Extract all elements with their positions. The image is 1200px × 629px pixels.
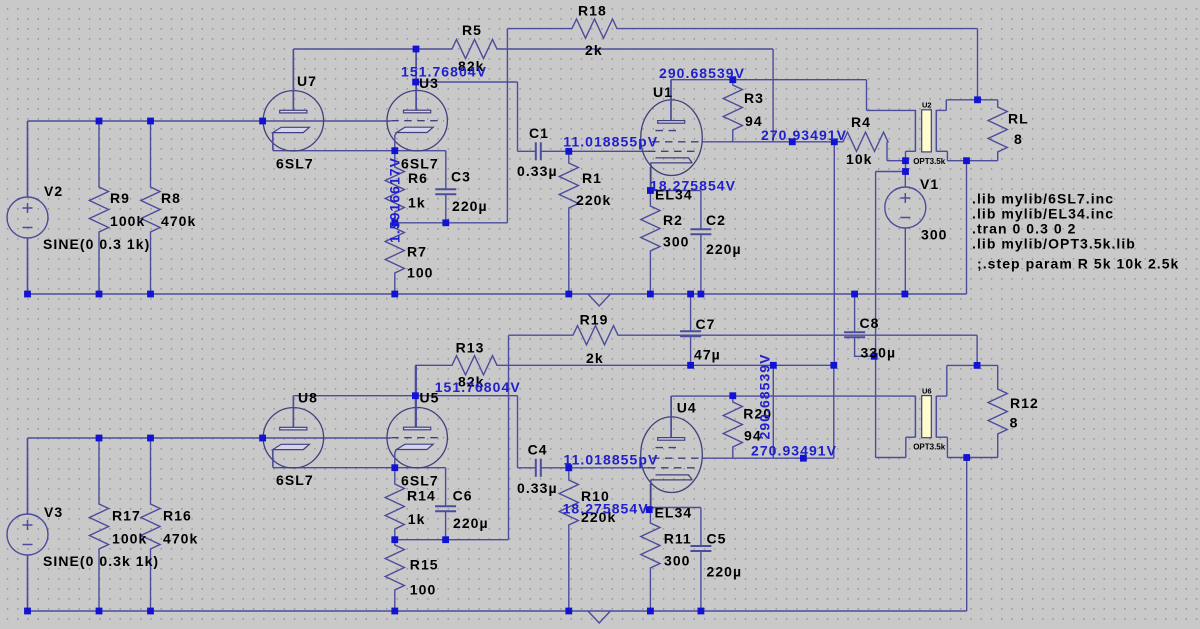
svg-text:100: 100 — [407, 265, 434, 281]
wire U8-U5 plate link — [293, 395, 415, 397]
label R10 — [581, 488, 610, 504]
triode U7 — [263, 49, 323, 151]
label U2 designator — [922, 101, 932, 110]
svg-text:R6: R6 — [408, 170, 428, 186]
label U3 — [419, 75, 439, 91]
capacitor C2 — [690, 191, 711, 295]
label C5 value — [707, 564, 743, 580]
label R7 value — [407, 265, 434, 281]
wire ground rail top — [28, 293, 967, 295]
label U2 value OPT3.5k — [913, 157, 946, 166]
wire feedback left drop lower — [508, 335, 510, 540]
label node voltage — [757, 353, 773, 439]
label C2 value — [706, 241, 742, 257]
svg-text:OPT3.5k: OPT3.5k — [913, 443, 946, 452]
wire primary bottom drop lower — [905, 437, 907, 457]
label C7 — [696, 316, 716, 332]
resistor R11 — [641, 508, 660, 612]
svg-text:270.93491V: 270.93491V — [751, 443, 837, 459]
wire V3 bottom lead — [27, 555, 29, 611]
wire secondary bottom lower — [947, 457, 997, 459]
svg-text:220µ: 220µ — [453, 515, 489, 531]
label R6 value — [408, 195, 426, 211]
triode U8 — [263, 396, 323, 468]
svg-text:R1: R1 — [582, 170, 602, 186]
label V3 — [44, 504, 63, 520]
svg-text:R12: R12 — [1010, 395, 1039, 411]
wire U8 grid line — [263, 437, 391, 439]
label R14 — [407, 488, 436, 504]
svg-text:100k: 100k — [112, 531, 147, 547]
label C3 value — [452, 198, 488, 214]
label U7 value — [276, 156, 314, 172]
svg-text:SINE(0 0.3 1k): SINE(0 0.3 1k) — [43, 236, 150, 252]
resistor R15 — [385, 540, 404, 611]
resistor R14 — [385, 468, 404, 540]
wire U8 plate lead — [292, 396, 294, 427]
svg-text:R13: R13 — [456, 340, 485, 356]
label R19 value — [586, 350, 604, 366]
wire plate to C4 branch — [415, 395, 517, 397]
svg-text:220µ: 220µ — [452, 198, 488, 214]
wire U4 grid feed — [569, 467, 650, 469]
label R17 value — [112, 531, 147, 547]
label spice directive — [972, 221, 1076, 237]
label R16 value — [163, 531, 198, 547]
wire U1 plate to OPT — [671, 79, 867, 81]
wire B+ drop to lower 270V node — [772, 365, 774, 458]
wire B+ drop to 270V node — [772, 49, 774, 142]
label spice directive — [972, 191, 1114, 207]
svg-text:100: 100 — [410, 582, 437, 598]
resistor R10 — [559, 468, 578, 611]
wire plate to C1 branch — [416, 81, 518, 83]
wire B+ vertical interchannel — [833, 142, 835, 365]
svg-text:U4: U4 — [677, 400, 697, 416]
resistor R20 — [723, 396, 742, 459]
resistor R13 — [415, 356, 833, 375]
label R15 value — [410, 582, 437, 598]
svg-text:U8: U8 — [298, 390, 318, 406]
svg-text:OPT3.5k: OPT3.5k — [913, 157, 946, 166]
wire U4 plate lead — [670, 396, 672, 437]
wire cathode bottom node lower — [395, 539, 509, 541]
resistor R6 — [385, 151, 404, 223]
svg-text:R14: R14 — [407, 488, 436, 504]
wire C4 branch down — [517, 396, 519, 468]
triode U5 — [387, 365, 447, 468]
label node voltage — [761, 127, 847, 143]
capacitor C6 — [435, 468, 456, 540]
wire primary bottom to V1 — [905, 151, 907, 171]
svg-text:U1: U1 — [653, 84, 673, 100]
wire secondary top riser lower — [946, 365, 948, 396]
wire input bottom — [28, 437, 263, 439]
label spice comment — [977, 256, 1179, 272]
transformer U2 — [915, 110, 936, 152]
wire secondary top lower — [947, 364, 998, 366]
svg-text:300: 300 — [921, 227, 948, 243]
wire secondary top riser — [945, 100, 947, 111]
capacitor C7 — [680, 294, 701, 365]
wire R4 right drop — [886, 142, 888, 161]
label spice directive — [972, 206, 1114, 222]
wire secondary bottom drop — [946, 151, 948, 160]
svg-text:SINE(0 0.3k 1k): SINE(0 0.3k 1k) — [43, 553, 159, 569]
label R12 value — [1010, 415, 1019, 431]
wire V2 bottom lead — [27, 238, 29, 294]
junctions top channel — [24, 46, 981, 298]
svg-text:18.275854V: 18.275854V — [563, 501, 649, 517]
svg-text:EL34: EL34 — [655, 505, 693, 521]
voltage source V1 — [885, 172, 926, 295]
label U1 — [653, 84, 673, 100]
label R9 — [110, 190, 130, 206]
wire V3 top lead — [27, 438, 29, 514]
label C2 — [706, 212, 726, 228]
svg-text:470k: 470k — [161, 213, 196, 229]
label C1 — [529, 125, 549, 141]
voltage source V2 — [7, 121, 48, 294]
svg-text:220µ: 220µ — [706, 241, 742, 257]
svg-text:U7: U7 — [297, 73, 317, 89]
svg-text:R19: R19 — [580, 312, 609, 328]
label C7 value — [694, 347, 721, 363]
capacitor C4 — [518, 459, 569, 477]
svg-text:.tran 0 0.3 0 2: .tran 0 0.3 0 2 — [972, 221, 1076, 237]
svg-text:18.275854V: 18.275854V — [650, 178, 736, 194]
svg-text:R3: R3 — [744, 90, 764, 106]
label R7 — [407, 244, 427, 260]
label R16 — [163, 508, 192, 524]
label R3 — [744, 90, 764, 106]
svg-text:R8: R8 — [161, 190, 181, 206]
label R8 — [161, 190, 181, 206]
svg-text:C2: C2 — [706, 212, 726, 228]
wire secondary bottom stub lower — [936, 436, 947, 438]
voltage source V3 — [7, 438, 48, 611]
wire 270V node horizontal — [702, 141, 843, 143]
svg-text:11.018855pV: 11.018855pV — [563, 134, 658, 150]
wire U8 cathode lead — [272, 450, 274, 468]
label R4 value — [846, 151, 873, 167]
label C6 — [453, 488, 473, 504]
svg-text:;.step param R 5k 10k 2.5k: ;.step param R 5k 10k 2.5k — [977, 256, 1179, 272]
wire secondary bottom to rail lower — [966, 458, 968, 612]
resistor RL — [988, 100, 1007, 161]
wire V1 plus stub — [876, 171, 906, 173]
capacitor C1 — [518, 142, 569, 160]
svg-text:2k: 2k — [586, 350, 604, 366]
svg-text:6SL7: 6SL7 — [401, 473, 439, 489]
label R13 — [456, 340, 485, 356]
svg-text:C7: C7 — [696, 316, 716, 332]
svg-text:C3: C3 — [451, 169, 471, 185]
label U5 — [420, 390, 440, 406]
label R4 — [851, 114, 871, 130]
wire U7 cathode lead — [272, 133, 274, 151]
wire cathode to C5 — [650, 507, 701, 509]
label C1 value — [517, 163, 558, 179]
label node voltage — [401, 64, 487, 80]
label node voltage — [659, 65, 745, 81]
label R3 value — [745, 113, 763, 129]
label V1 value — [921, 227, 948, 243]
svg-text:V2: V2 — [44, 183, 63, 199]
wire secondary bottom to rail — [966, 161, 968, 294]
ground — [588, 294, 610, 306]
wire C1 branch down — [517, 82, 519, 151]
wire U4 cathode lead — [649, 484, 651, 508]
ground — [588, 611, 610, 623]
wire input top — [28, 120, 263, 122]
label spice directive — [972, 236, 1136, 252]
wire U3 plate lead — [415, 49, 417, 110]
svg-text:330µ: 330µ — [861, 345, 897, 361]
capacitor C5 — [690, 508, 711, 612]
svg-text:300: 300 — [664, 553, 691, 569]
svg-text:V1: V1 — [920, 176, 939, 192]
wire U7-U3 plate link — [293, 48, 416, 50]
wire cathode to C2 — [650, 190, 701, 192]
wire cathode node bottom ch — [273, 467, 446, 469]
wire ground rail bottom — [28, 610, 967, 612]
capacitor C3 — [435, 151, 456, 223]
label R11 value — [664, 553, 691, 569]
label V3 value — [43, 553, 159, 569]
svg-text:R5: R5 — [462, 22, 482, 38]
svg-text:.lib mylib/EL34.inc: .lib mylib/EL34.inc — [972, 206, 1114, 222]
svg-text:6SL7: 6SL7 — [276, 472, 314, 488]
label U4 — [677, 400, 697, 416]
svg-text:0.33µ: 0.33µ — [517, 163, 558, 179]
wire secondary bottom — [947, 160, 997, 162]
wire feedback right drop — [977, 29, 979, 100]
wire V2 top lead — [27, 121, 29, 197]
wire OPT primary top — [867, 109, 916, 111]
wire cathode bottom node — [395, 222, 508, 224]
svg-text:0.33µ: 0.33µ — [517, 480, 558, 496]
label R9 value — [110, 213, 145, 229]
svg-text:290.68539V: 290.68539V — [757, 353, 773, 439]
label U5 value — [401, 473, 439, 489]
label R17 — [112, 508, 141, 524]
svg-text:C5: C5 — [707, 531, 727, 547]
label node voltage — [564, 452, 659, 468]
svg-text:RL: RL — [1008, 111, 1029, 127]
wire secondary bottom drop lower — [946, 437, 948, 457]
wire primary bottom stub — [906, 150, 916, 152]
label node voltage — [435, 379, 521, 395]
label R2 — [663, 212, 683, 228]
svg-text:6SL7: 6SL7 — [276, 156, 314, 172]
svg-text:U6: U6 — [922, 387, 932, 396]
label R13 value — [458, 374, 485, 390]
svg-text:47µ: 47µ — [694, 347, 721, 363]
resistor R2 — [641, 191, 660, 295]
svg-text:11.018855pV: 11.018855pV — [564, 452, 659, 468]
wire R4 to V1 node — [887, 160, 906, 162]
svg-text:.lib mylib/OPT3.5k.lib: .lib mylib/OPT3.5k.lib — [972, 236, 1136, 252]
label R20 — [743, 406, 772, 422]
label node voltage — [650, 178, 736, 194]
triode U3 — [387, 49, 447, 151]
label R2 value — [663, 234, 690, 250]
svg-text:1.5916617V: 1.5916617V — [387, 157, 403, 243]
wire 300V vertical — [875, 172, 877, 458]
resistor R3 — [723, 80, 742, 142]
wire primary bottom to 300V — [876, 457, 906, 459]
pentode U1 — [641, 80, 703, 191]
label R8 value — [161, 213, 196, 229]
svg-text:2k: 2k — [585, 42, 603, 58]
label RL value — [1014, 131, 1023, 147]
svg-text:1k: 1k — [408, 511, 426, 527]
wire U4 control grid dashes — [648, 467, 695, 469]
label node voltage — [751, 443, 837, 459]
label C4 value — [517, 480, 558, 496]
svg-text:470k: 470k — [163, 531, 198, 547]
svg-text:R15: R15 — [410, 557, 439, 573]
label U6 designator — [922, 387, 932, 396]
wire OPT primary top drop — [866, 80, 868, 111]
svg-text:R17: R17 — [112, 508, 141, 524]
label R6 — [408, 170, 428, 186]
label RL — [1008, 111, 1029, 127]
wire secondary bottom stub — [936, 150, 947, 152]
resistor R12 — [988, 365, 1007, 457]
label U8 — [298, 390, 318, 406]
label C6 value — [453, 515, 489, 531]
svg-text:R18: R18 — [578, 3, 607, 19]
label U3 value — [401, 156, 439, 172]
svg-text:151.76804V: 151.76804V — [401, 64, 487, 80]
label R19 — [580, 312, 609, 328]
label V2 — [44, 183, 63, 199]
wire secondary top — [946, 99, 997, 101]
svg-text:1k: 1k — [408, 195, 426, 211]
svg-text:300: 300 — [663, 234, 690, 250]
wire U7 grid line — [263, 120, 391, 122]
resistor R9 — [89, 121, 108, 294]
pentode U4 — [641, 396, 703, 507]
label U1 value — [655, 187, 693, 203]
label C8 — [860, 315, 880, 331]
resistor R5 — [416, 39, 773, 58]
label U4 value — [655, 505, 693, 521]
svg-text:C4: C4 — [528, 442, 548, 458]
wire U5 plate lead — [414, 365, 416, 427]
resistor R19 — [509, 326, 978, 345]
svg-text:R4: R4 — [851, 114, 871, 130]
resistor R7 — [385, 223, 404, 294]
label V2 value — [43, 236, 150, 252]
label C5 — [707, 531, 727, 547]
svg-text:R9: R9 — [110, 190, 130, 206]
svg-text:270.93491V: 270.93491V — [761, 127, 847, 143]
svg-text:151.76804V: 151.76804V — [435, 379, 521, 395]
svg-text:R11: R11 — [664, 531, 692, 547]
svg-text:290.68539V: 290.68539V — [659, 65, 745, 81]
wire feedback left drop — [506, 29, 508, 223]
wire U1 screen dashes — [652, 141, 702, 143]
resistor R4 — [834, 132, 888, 151]
label U6 value OPT3.5k — [913, 443, 946, 452]
capacitor C8 — [844, 294, 874, 356]
svg-text:10k: 10k — [846, 151, 873, 167]
label C4 — [528, 442, 548, 458]
svg-text:R2: R2 — [663, 212, 683, 228]
svg-text:R7: R7 — [407, 244, 427, 260]
wire feedback right drop lower — [976, 335, 978, 365]
svg-text:R16: R16 — [163, 508, 192, 524]
wire U7 plate lead up — [292, 49, 294, 110]
label R18 value — [585, 42, 603, 58]
wire U4 screen dashes — [652, 457, 702, 459]
label U8 value — [276, 472, 314, 488]
svg-text:U2: U2 — [922, 101, 932, 110]
label R10 value — [581, 509, 616, 525]
svg-text:8: 8 — [1014, 131, 1023, 147]
resistor R17 — [89, 438, 108, 611]
label R12 — [1010, 395, 1039, 411]
svg-text:.lib mylib/6SL7.inc: .lib mylib/6SL7.inc — [972, 191, 1114, 207]
wire B+ drop right lower — [833, 365, 835, 458]
label node voltage — [563, 134, 658, 150]
label C3 — [451, 169, 471, 185]
label node voltage — [387, 157, 403, 243]
label V1 — [920, 176, 939, 192]
label R1 — [582, 170, 602, 186]
label C8 value — [861, 345, 897, 361]
wire cathode node top — [273, 150, 446, 152]
svg-text:220µ: 220µ — [707, 564, 743, 580]
wire secondary top stub lower — [936, 395, 947, 397]
resistor R1 — [559, 152, 578, 294]
transformer U6 — [915, 396, 936, 438]
label R20 value — [744, 428, 762, 444]
svg-text:8: 8 — [1010, 415, 1019, 431]
wire U1 cathode lead — [649, 167, 651, 191]
svg-text:220k: 220k — [576, 192, 611, 208]
svg-text:100k: 100k — [110, 213, 145, 229]
label R11 — [664, 531, 692, 547]
label node voltage — [563, 501, 649, 517]
label R5 — [462, 22, 482, 38]
svg-text:C1: C1 — [529, 125, 549, 141]
label U7 — [297, 73, 317, 89]
wire U1 plate lead — [670, 80, 672, 120]
label R15 — [410, 557, 439, 573]
label R5 value — [458, 58, 485, 74]
label R18 — [578, 3, 607, 19]
svg-text:C8: C8 — [860, 315, 880, 331]
junctions bottom channel — [24, 353, 980, 614]
wire U4 plate to OPT — [671, 395, 915, 397]
svg-text:V3: V3 — [44, 504, 63, 520]
svg-text:C6: C6 — [453, 488, 473, 504]
resistor R8 — [141, 121, 160, 294]
wire 270V node lower — [702, 457, 834, 459]
wire secondary top stub — [936, 109, 946, 111]
label R1 value — [576, 192, 611, 208]
label R14 value — [408, 511, 426, 527]
resistor R16 — [141, 438, 160, 611]
wire primary bottom stub lower — [906, 436, 916, 438]
wire U1 control grid dashes — [648, 150, 695, 152]
wire U1 grid feed — [569, 150, 650, 152]
resistor R18 — [507, 19, 977, 38]
